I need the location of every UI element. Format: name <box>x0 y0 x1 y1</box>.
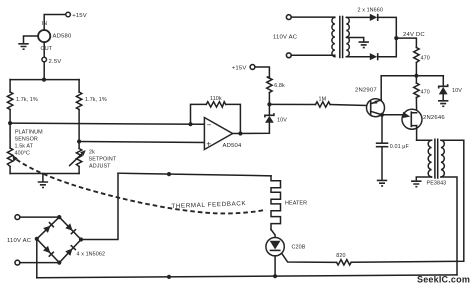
wire 6.8k to +15V terminal <box>255 67 269 78</box>
terminal +15V mid <box>232 65 255 72</box>
svg-text:C20B: C20B <box>292 245 306 251</box>
transistor Q1 2N2907 <box>355 88 385 117</box>
node on bottom rail <box>167 275 171 279</box>
potentiometer R2 2k setpoint adjust <box>70 149 117 170</box>
svg-text:10V: 10V <box>277 118 287 124</box>
svg-text:1.7k, 1%: 1.7k, 1% <box>16 97 38 103</box>
voltage reference U2 AD580 <box>38 21 72 52</box>
svg-text:10V: 10V <box>452 88 462 94</box>
resistor R7 470 bottom <box>414 83 430 98</box>
node left bridge output <box>8 121 12 125</box>
svg-text:HEATER: HEATER <box>285 201 307 207</box>
node SCR on rail <box>273 274 277 278</box>
svg-text:110V AC: 110V AC <box>273 35 298 41</box>
wire bridge right leg upper <box>78 80 80 92</box>
wire terminal to bridge top corner <box>20 216 60 218</box>
node 24V DC <box>394 32 425 40</box>
node 2N2907 collector <box>380 113 384 117</box>
capacitor C1 0.01 uF <box>376 143 410 150</box>
svg-text:SeekIC.com: SeekIC.com <box>417 275 470 285</box>
wire 820 to SCR gate <box>281 253 336 263</box>
wire 2N2907 emitter up <box>380 76 382 101</box>
svg-text:+15V: +15V <box>72 13 87 19</box>
T1 core <box>340 17 343 58</box>
resistor R3 110k feedback <box>206 96 225 107</box>
terminal 2.5V <box>42 57 62 65</box>
wire AD580 top to +15V terminal <box>44 15 66 31</box>
wire heater feed line <box>118 173 271 176</box>
svg-text:6.8k: 6.8k <box>274 83 285 89</box>
terminal +15V top-left <box>66 12 87 19</box>
node right bridge output <box>77 139 81 143</box>
svg-text:24V DC: 24V DC <box>403 32 425 38</box>
wire primary bottom <box>291 55 335 56</box>
resistor 1.7k left <box>7 92 37 110</box>
ground at center tap <box>359 42 369 48</box>
svg-text:820: 820 <box>336 253 345 259</box>
wire collector to UJT emitter <box>382 114 403 116</box>
wire AD580 OUT down <box>43 42 45 57</box>
SCR Q3 C20B <box>266 238 306 256</box>
wire 2.5V to bridge top <box>43 62 45 80</box>
wire node up to 6.8k <box>268 93 270 105</box>
svg-text:SETPOINT: SETPOINT <box>89 157 117 163</box>
wire bottom rail <box>37 275 457 278</box>
transformer T1 primary 110V AC <box>273 15 298 58</box>
wire right mid leg <box>78 110 80 149</box>
wire SCR cathode to rail <box>274 256 276 276</box>
diode D1 1N660 top <box>358 8 383 22</box>
svg-text:PLATINUM: PLATINUM <box>15 130 43 136</box>
wire heater to SCR <box>271 230 275 238</box>
wire junction to right zener <box>442 76 444 87</box>
svg-text:470: 470 <box>421 56 430 62</box>
bridge rectifier D5 4 x 1N5062 <box>35 215 105 265</box>
wire bridge bottom rail <box>10 173 79 175</box>
ground below capacitor <box>377 180 387 186</box>
T1 secondary winding <box>346 17 349 56</box>
svg-text:−: − <box>207 121 212 130</box>
zener diode D4 10V right <box>439 84 462 94</box>
transistor Q2 2N2646 UJT <box>402 109 445 129</box>
wire AD580 left to ground <box>24 36 39 43</box>
svg-text:OUT: OUT <box>41 46 53 52</box>
node 470/470 junction <box>414 74 418 78</box>
svg-text:SENSOR: SENSOR <box>15 137 38 143</box>
zener diode D3 10V <box>265 113 287 123</box>
wire secondary bottom to diode2 <box>346 56 369 58</box>
wire feedback right vertical to output <box>226 104 241 133</box>
svg-text:2N2907: 2N2907 <box>355 88 377 94</box>
wire bridge left leg upper <box>9 80 11 92</box>
svg-text:400°C: 400°C <box>15 151 31 157</box>
platinum sensor RT1 <box>7 130 43 167</box>
ground at bridge bottom <box>38 182 48 188</box>
svg-text:470: 470 <box>421 90 430 96</box>
node inverting input <box>188 122 192 126</box>
wire right zener to ground <box>442 94 444 100</box>
svg-text:+15V: +15V <box>232 66 247 72</box>
wire zener node to 1M <box>269 103 315 105</box>
resistor 1.7k right <box>76 92 106 110</box>
wire 470 top to junction <box>415 63 417 84</box>
wire bridge ground stub <box>42 174 44 182</box>
wire 24V node to top 470 <box>396 38 416 47</box>
wire bridge plus corner up to heater line <box>81 173 118 239</box>
wire sensor bottom <box>9 167 11 174</box>
wire zener top to node <box>268 104 270 115</box>
resistor R4 6.8k <box>267 77 285 93</box>
svg-text:1M: 1M <box>319 97 327 103</box>
wire bridge top rail <box>10 79 79 81</box>
svg-text:2.5V: 2.5V <box>49 59 62 65</box>
wire diode top to 24V node <box>378 17 397 56</box>
wire terminal to bridge bottom corner <box>20 262 60 264</box>
wire left node to op-amp inverting input <box>10 123 204 124</box>
svg-text:2k: 2k <box>89 150 95 156</box>
wire right node to op-amp non-inverting input <box>79 142 204 143</box>
ground below right zener <box>438 101 448 107</box>
ground at AD580 <box>18 44 28 49</box>
node zener / 1M <box>267 102 271 106</box>
op-amp U1 AD504 <box>204 118 242 150</box>
resistor R6 470 top <box>414 48 430 63</box>
heater element <box>271 176 307 230</box>
thermal feedback dashed arrow <box>12 155 266 214</box>
wire UJT base2 down <box>416 126 418 141</box>
wire bridge minus corner to rail <box>36 239 38 278</box>
node on heater line <box>167 172 171 176</box>
wire 470 bottom to UJT base1 <box>415 98 417 113</box>
wire emitter rail to 470 junction and zener <box>381 75 443 77</box>
transformer T2 PE3843 <box>417 139 447 186</box>
svg-text:PE3843: PE3843 <box>427 181 447 187</box>
svg-text:+: + <box>206 139 211 148</box>
svg-text:0.01 μF: 0.01 μF <box>390 144 410 150</box>
svg-text:1.7k, 1%: 1.7k, 1% <box>85 97 107 103</box>
wire left mid leg <box>9 110 11 149</box>
diode D2 1N660 bottom <box>370 53 378 60</box>
wire secondary center tap <box>346 38 363 42</box>
svg-text:2 x 1N660: 2 x 1N660 <box>358 8 383 14</box>
wire T2 primary bottom to ground <box>416 177 431 181</box>
node bridge top <box>42 78 46 82</box>
wire secondary top to diode <box>346 16 369 18</box>
svg-text:4 x 1N5062: 4 x 1N5062 <box>77 252 106 258</box>
svg-text:1.5k AT: 1.5k AT <box>15 144 34 150</box>
svg-text:AD580: AD580 <box>53 34 73 40</box>
resistor R8 820 <box>336 253 351 265</box>
node op-amp output <box>238 131 242 135</box>
wire pot bottom <box>78 167 80 174</box>
svg-text:110V AC: 110V AC <box>7 238 32 244</box>
svg-text:ADJUST: ADJUST <box>89 164 111 170</box>
svg-text:2N2646: 2N2646 <box>423 115 445 121</box>
wire capacitor to ground <box>381 147 383 180</box>
wire T2 secondary top down right side <box>351 140 464 262</box>
svg-text:110k: 110k <box>210 96 222 102</box>
T1 primary winding <box>332 17 335 56</box>
ground at T2 <box>411 181 421 187</box>
wire op-amp output to zener <box>233 123 270 134</box>
wire T2 secondary bottom to rail end <box>441 177 457 275</box>
wire primary top <box>291 16 335 18</box>
wire collector down to capacitor <box>381 115 383 143</box>
terminal 110V AC bottom top <box>7 215 32 265</box>
wire 1M to 2N2907 base <box>330 105 367 106</box>
svg-text:AD504: AD504 <box>223 143 243 149</box>
wire feedback left vertical <box>191 104 207 124</box>
resistor R5 1M <box>316 97 331 108</box>
